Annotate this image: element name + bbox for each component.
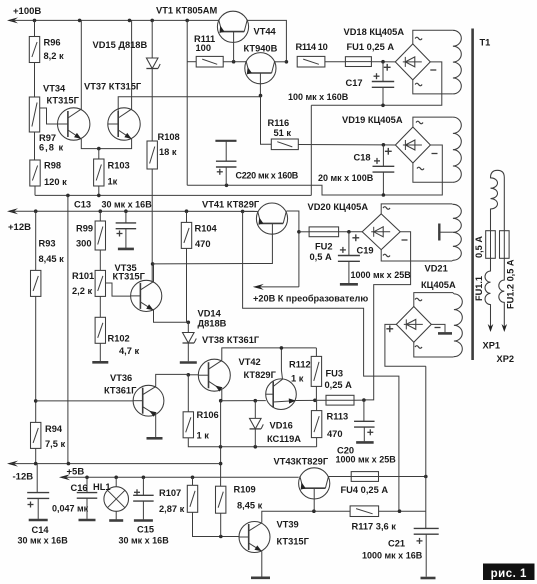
svg-text:0,5 А: 0,5 А: [474, 236, 484, 258]
transformer winding Ia: [453, 30, 461, 94]
wire FU3 right: [354, 399, 364, 401]
plus VD19: [385, 148, 392, 155]
resistor R98: [30, 160, 40, 186]
node C17 top: [381, 60, 385, 64]
wire center tap: [440, 231, 453, 233]
wire VT37 collector: [131, 20, 133, 109]
svg-text:+100В: +100В: [13, 6, 41, 17]
node VT42 base line: [219, 399, 223, 403]
svg-text:FU3: FU3: [326, 369, 344, 379]
tilde VD20 bottom: [383, 254, 390, 257]
svg-text:Т1: Т1: [480, 38, 491, 48]
node VT36 base: [34, 399, 38, 403]
mains cord XP1: [485, 258, 491, 327]
wire VT36 base: [36, 400, 133, 402]
wire R99 top: [99, 211, 101, 221]
wire VT44 lead down: [259, 73, 261, 96]
tilde VD21 top: [415, 298, 422, 301]
fuse FU1.1: [486, 231, 496, 259]
wire VD19 top AC: [413, 117, 452, 127]
svg-text:20 мк х 100В: 20 мк х 100В: [318, 173, 374, 183]
node output x=399: [398, 509, 402, 513]
node rail12-R93: [34, 209, 38, 213]
svg-text:R113: R113: [327, 412, 349, 422]
ground VT36: [147, 437, 163, 440]
svg-text:R101: R101: [72, 271, 94, 281]
wire minus riser to C22 line: [310, 105, 312, 195]
svg-text:8,45 к: 8,45 к: [39, 254, 65, 264]
wire R96-R97: [34, 63, 36, 98]
svg-text:1000 мк х 25В: 1000 мк х 25В: [336, 455, 397, 465]
transistor VT38: [198, 359, 230, 391]
svg-text:HL1: HL1: [93, 482, 111, 492]
svg-text:100 мк х 160В: 100 мк х 160В: [288, 92, 349, 102]
svg-text:рис. 1: рис. 1: [491, 568, 527, 580]
wire VT36 emitter: [155, 415, 157, 437]
wire VT42 emitter: [296, 399, 315, 401]
node C20 top: [362, 398, 366, 402]
resistor R116: [271, 139, 298, 150]
svg-text:КТ315Г: КТ315Г: [277, 537, 310, 547]
minus VD19: [432, 153, 438, 155]
svg-text:0,5 А: 0,5 А: [310, 252, 333, 262]
svg-text:-12В: -12В: [13, 472, 34, 483]
wire VT38 collector: [222, 348, 317, 361]
wire FU1-VD18: [371, 61, 395, 63]
svg-text:8,2 к: 8,2 к: [44, 51, 65, 61]
svg-text:R102: R102: [108, 334, 130, 344]
node rail5 HL1: [114, 476, 118, 480]
tilde VD20 top: [383, 207, 390, 210]
transformer winding IV: [454, 294, 462, 357]
svg-text:7,5 к: 7,5 к: [45, 439, 66, 449]
wire VD18 minus return: [311, 62, 442, 105]
bridge VD21: [396, 307, 431, 343]
node rail5 R107: [191, 476, 195, 480]
wire R108 bottom to VT35 collector: [151, 169, 153, 282]
svg-text:1 к: 1 к: [197, 431, 210, 441]
wire VT44 right lead: [275, 61, 287, 63]
svg-text:R96: R96: [44, 38, 61, 48]
node VT41base-line: [151, 262, 155, 266]
tilde VD18 bottom: [415, 83, 422, 86]
node C18 top: [382, 143, 386, 147]
minus VD21: [435, 327, 441, 329]
node rail-VD15: [150, 19, 154, 23]
ground C16: [79, 519, 96, 522]
wire FU2 left: [299, 231, 309, 233]
svg-text:FU1 0,25 А: FU1 0,25 А: [347, 42, 395, 52]
tilde VD19 top: [416, 121, 423, 124]
wire C18 top stem: [382, 145, 384, 167]
svg-text:R107: R107: [159, 488, 181, 498]
resistor R99: [95, 221, 105, 250]
capacitor C20: [354, 421, 375, 435]
ground R102: [92, 361, 108, 364]
svg-text:FU1.1: FU1.1: [474, 276, 484, 301]
node rail-VT34c: [78, 19, 82, 23]
svg-text:470: 470: [327, 429, 343, 439]
svg-text:VT44: VT44: [254, 27, 277, 37]
wire R117 right: [379, 510, 426, 512]
node rail5 C16: [85, 476, 89, 480]
svg-text:C17: C17: [346, 78, 363, 88]
transformer winding III: [453, 204, 461, 260]
transformer primary winding: [491, 170, 505, 230]
node FU4 out: [424, 475, 428, 479]
node emitters-R103: [97, 147, 101, 151]
wire R93 top: [35, 211, 37, 270]
svg-text:VD14: VD14: [198, 309, 222, 319]
svg-text:0,047 мк: 0,047 мк: [52, 504, 89, 514]
svg-text:C21: C21: [388, 539, 405, 549]
svg-text:C18: C18: [354, 153, 371, 163]
transistor VT35: [131, 280, 162, 311]
ground C14: [29, 519, 48, 522]
wire C22 top stem: [225, 141, 227, 161]
wire R116 right: [298, 144, 395, 147]
wire VT35 emitter: [154, 310, 189, 323]
wire VT41 base line: [153, 223, 273, 264]
wire C18 bottom stem: [382, 172, 384, 195]
lamp HL1: [104, 487, 129, 512]
wire VD18 bottom AC: [413, 80, 452, 94]
wire R113 bottom: [316, 438, 318, 447]
node VT38 base: [187, 373, 191, 377]
svg-text:КС119А: КС119А: [267, 434, 301, 444]
transistor VT37: [108, 108, 140, 140]
wire L1 to -12V: [67, 195, 69, 463]
ground C13: [118, 248, 134, 251]
wire VD14 bottom: [187, 343, 189, 361]
wire C16 lower stem: [86, 498, 88, 519]
wire +20V line: [257, 286, 299, 288]
svg-text:1к: 1к: [108, 177, 118, 187]
bridge VD20: [362, 214, 400, 250]
wire winding II top end: [451, 116, 454, 118]
zener VD15: [146, 58, 160, 69]
wire C21 lower stem: [425, 534, 427, 577]
wire winding Ia top end: [451, 29, 454, 31]
svg-text:КТ315Г: КТ315Г: [113, 272, 146, 282]
svg-text:1000 мк х 16В: 1000 мк х 16В: [362, 551, 423, 561]
wire VT1 right to R114: [248, 20, 287, 61]
svg-text:Д818В: Д818В: [198, 319, 227, 329]
capacitor C16: [77, 493, 98, 499]
wire node to R116: [261, 96, 272, 145]
wire C22 bottom stem: [225, 167, 227, 185]
svg-text:R99: R99: [76, 224, 93, 234]
resistor R96: [29, 37, 39, 63]
wire C20 lower stem: [363, 427, 365, 441]
svg-text:VT36: VT36: [110, 373, 132, 383]
svg-text:ХР2: ХР2: [497, 354, 515, 364]
wire R94 bottom: [35, 448, 37, 463]
wire winding Ia bottom end: [451, 93, 454, 95]
resistor R113: [311, 411, 321, 438]
svg-text:R106: R106: [197, 410, 219, 420]
node C18 bottom: [382, 193, 386, 197]
svg-text:R114 10: R114 10: [296, 42, 328, 52]
wire C13 lower stem: [125, 229, 127, 249]
wire VD21+ vertical: [425, 366, 427, 528]
fuse FU1.2: [500, 231, 510, 259]
wire VD19 minus return: [187, 145, 442, 195]
bridge VD18: [395, 44, 430, 80]
node VT44 lead: [259, 94, 263, 98]
svg-text:VD21: VD21: [425, 264, 448, 274]
svg-text:4,7 к: 4,7 к: [119, 346, 140, 356]
minus VD18: [430, 69, 436, 71]
svg-text:VT38 КТ361Г: VT38 КТ361Г: [202, 335, 260, 345]
svg-text:КТ315Г: КТ315Г: [47, 96, 80, 106]
wire VT43 lead down: [313, 488, 315, 511]
plus VD21: [386, 325, 393, 332]
svg-text:30 мк х 16В: 30 мк х 16В: [119, 536, 170, 546]
transistor VT43: [299, 468, 330, 499]
svg-text:30 мк х 16В: 30 мк х 16В: [102, 200, 153, 210]
node L1 long-wire: [66, 194, 70, 198]
node bottomline VD16: [254, 445, 258, 449]
wire C14 lower stem: [37, 498, 39, 519]
wire VT1 lead down: [233, 32, 235, 62]
wire VT42 collector: [281, 348, 282, 379]
arrow -12V rail: [7, 461, 18, 467]
capacitor C17: [372, 73, 394, 87]
ground VT39: [251, 576, 270, 579]
svg-text:R103: R103: [108, 161, 130, 171]
transistor VT42: [266, 379, 297, 410]
wire VT38e to R109: [220, 401, 222, 487]
svg-text:С220 мк х 160В: С220 мк х 160В: [236, 171, 299, 181]
capacitor C21: [414, 528, 439, 544]
svg-text:8,45 к: 8,45 к: [237, 501, 263, 511]
transformer T1 core: [471, 29, 474, 361]
wire VD15 top: [151, 20, 153, 58]
arrow +5V rail: [59, 474, 70, 480]
wire VT34 emitter: [81, 139, 99, 149]
node L1 R103: [97, 194, 101, 198]
wire VD16 top stem: [254, 401, 256, 419]
fuse FU3: [326, 395, 354, 405]
wire VD14 stem: [187, 322, 189, 332]
svg-text:470: 470: [195, 239, 211, 249]
resistor R108: [147, 141, 157, 169]
capacitor C14: [27, 493, 49, 508]
wire FU2-VD20: [339, 231, 363, 233]
svg-text:FU4 0,25 А: FU4 0,25 А: [341, 485, 389, 495]
svg-text:0,25 А: 0,25 А: [325, 380, 353, 390]
node rail-R96: [33, 19, 37, 23]
svg-text:C13: C13: [74, 200, 91, 210]
fuse FU4: [351, 472, 378, 482]
svg-text:VT39: VT39: [277, 520, 299, 530]
svg-text:C16: C16: [71, 483, 88, 493]
svg-text:FU1.2 0,5 А: FU1.2 0,5 А: [506, 259, 516, 309]
wire winding III bottom end: [451, 259, 454, 262]
svg-text:VD16: VD16: [270, 421, 293, 431]
wire +5V rail: [63, 476, 299, 478]
transistor VT1: [217, 11, 248, 42]
wire R104 top: [186, 211, 188, 222]
resistor R93: [31, 270, 41, 296]
resistor R111: [196, 56, 223, 67]
svg-text:1 к: 1 к: [291, 374, 304, 384]
arrow XP1: [488, 324, 494, 332]
svg-text:+12В: +12В: [8, 222, 31, 233]
wire C17 top stem: [382, 62, 384, 82]
svg-text:30 мк х 16В: 30 мк х 16В: [18, 536, 69, 546]
svg-text:VT37 КТ315Г: VT37 КТ315Г: [84, 82, 142, 92]
resistor R112: [311, 356, 321, 386]
node rail12-C13: [124, 209, 128, 213]
node rail12-R99: [99, 209, 103, 213]
node rail5 C15: [142, 476, 146, 480]
tilde VD21 bottom: [415, 346, 422, 349]
wire VD16 bottom stem: [254, 429, 256, 447]
wire R106 bottom: [188, 438, 316, 447]
svg-text:120 к: 120 к: [44, 177, 67, 187]
wire R102 bottom: [99, 343, 101, 361]
wire L1 common line: [35, 194, 311, 196]
wire VT38 base: [188, 374, 198, 376]
wire FU3 left: [315, 399, 326, 401]
svg-text:100: 100: [196, 43, 212, 53]
node VD16 top: [254, 399, 258, 403]
svg-text:КТ940В: КТ940В: [244, 44, 278, 54]
arrow +12V rail: [7, 208, 18, 214]
svg-text:VT42: VT42: [239, 357, 261, 367]
capacitor C15: [133, 489, 154, 501]
arrow +100V rail: [7, 17, 18, 23]
svg-text:C14: C14: [32, 525, 50, 535]
wire HL1 top stem: [115, 477, 117, 486]
wire R107 top: [192, 477, 194, 485]
tilde VD19 bottom: [417, 167, 424, 170]
node FU2 branch: [297, 230, 301, 234]
wire C19 stem: [348, 232, 350, 256]
wire VT39 emitter: [261, 551, 263, 576]
svg-text:R112: R112: [289, 360, 311, 370]
wire C14 stem: [36, 464, 38, 493]
wire VT43 right lead: [329, 476, 352, 478]
wire +100V rail: [11, 19, 219, 21]
wire winding IV bottom end: [452, 356, 455, 358]
wire C16 stem: [86, 477, 88, 492]
node rail-12 R94: [34, 462, 38, 466]
wire VT36 collector: [156, 374, 189, 386]
node C22 bottom: [225, 184, 229, 188]
capacitor C22: [216, 161, 237, 175]
wire VT39 collector: [262, 511, 350, 523]
transistor VT41: [256, 203, 287, 234]
resistor R101: [95, 270, 105, 296]
svg-text:VD20 КЦ405А: VD20 КЦ405А: [308, 202, 369, 212]
fuse FU2: [309, 227, 339, 237]
resistor R97: [29, 97, 39, 132]
wire VT34 collector: [80, 20, 82, 109]
plus VD18: [384, 64, 391, 71]
resistor R114: [297, 56, 325, 67]
svg-text:C19: C19: [357, 246, 374, 256]
node bottomline VT38e: [219, 445, 223, 449]
svg-text:2,2 к: 2,2 к: [72, 286, 93, 296]
svg-text:VT41 КТ829Г: VT41 КТ829Г: [202, 200, 260, 210]
wire VD21 minus path: [431, 324, 445, 332]
wire R112 bottom: [315, 386, 317, 400]
wire R111 right: [223, 61, 246, 63]
transistor VT44: [245, 53, 276, 84]
wire winding IV top end: [452, 293, 455, 294]
node rail-VT37c: [128, 19, 132, 23]
svg-text:+5В: +5В: [67, 467, 85, 478]
wire +12V rail: [11, 210, 257, 212]
svg-text:1000 мк х 25В: 1000 мк х 25В: [351, 270, 412, 280]
zener VD16: [250, 418, 264, 429]
svg-text:2,87 к: 2,87 к: [159, 504, 185, 514]
transistor VT36: [133, 385, 164, 416]
svg-text:6,8 к: 6,8 к: [39, 143, 64, 153]
wire R107 bottom: [193, 512, 240, 536]
fuse FU1: [345, 57, 371, 67]
resistor R106: [183, 412, 193, 438]
winding III center tap bar: [438, 224, 440, 241]
wire winding III top end: [451, 203, 454, 205]
wire VD21 bottom AC: [414, 342, 453, 357]
wire VT38 emitter: [221, 390, 223, 401]
wire R99-R101: [99, 250, 101, 270]
resistor R117: [350, 506, 379, 517]
wire R98 bottom: [34, 186, 36, 195]
ground VD14: [180, 361, 197, 364]
capacitor C19: [338, 247, 360, 261]
svg-text:FU2: FU2: [315, 242, 333, 252]
wire R109 top: [220, 485, 222, 487]
svg-text:КЦ405А: КЦ405А: [421, 280, 456, 290]
wire VD20 bottom AC: [381, 250, 452, 261]
svg-text:VD18 КЦ405А: VD18 КЦ405А: [344, 27, 405, 37]
wire R101-R102: [99, 296, 101, 317]
wire R113 top: [316, 400, 318, 410]
svg-text:R97: R97: [39, 133, 56, 143]
wire R93-R94: [35, 296, 37, 422]
wire R111 left: [187, 61, 196, 63]
svg-text:R104: R104: [195, 224, 218, 234]
wire rail to R111/C22: [186, 20, 188, 185]
wire VT35 collector: [152, 264, 155, 282]
wire R114-FU1: [325, 61, 346, 63]
svg-text:18 к: 18 к: [159, 147, 177, 157]
minus VD20: [402, 239, 408, 241]
capacitor C13: [116, 223, 136, 237]
svg-text:R116: R116: [268, 118, 290, 128]
wire FU4 right: [379, 476, 426, 478]
node FU3 in: [313, 399, 317, 403]
wire R103 bottom: [98, 186, 100, 195]
svg-text:R117 3,6 к: R117 3,6 к: [352, 522, 397, 532]
svg-text:КТ361Г: КТ361Г: [104, 386, 137, 396]
wire VD20 minus path: [364, 232, 411, 400]
wire VD19 bottom AC: [413, 163, 452, 182]
ground C15: [134, 519, 153, 522]
svg-text:51 к: 51 к: [274, 128, 292, 138]
arrow XP2: [502, 324, 508, 332]
wire VD21 plus path: [385, 324, 426, 366]
node VT42 coll: [280, 346, 284, 350]
svg-text:300: 300: [76, 239, 92, 249]
wire C20 stem: [363, 400, 365, 421]
svg-text:R109: R109: [234, 485, 256, 495]
